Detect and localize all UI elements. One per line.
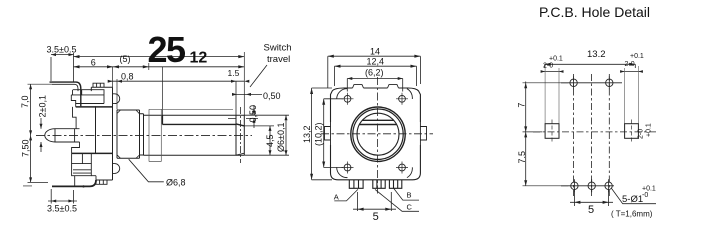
svg-text:12,4: 12,4 [367, 57, 385, 67]
center lines [377, 77, 379, 196]
rivet bump top [113, 94, 120, 104]
side tab left [325, 122, 331, 145]
dim 5 (terminals) [353, 192, 396, 211]
slot width mini-dims [541, 70, 643, 73]
svg-text:( T=1,6mm): ( T=1,6mm) [611, 210, 653, 219]
extension line shaft end [243, 52, 245, 115]
side tab right [420, 122, 426, 145]
dim 1.5 shaft tip [231, 80, 249, 116]
body: right block [91, 87, 112, 180]
svg-text:Ø6±0,1: Ø6±0,1 [276, 123, 286, 152]
svg-text:7: 7 [516, 103, 526, 108]
dim chain 6 / (5) [74, 63, 245, 124]
ears top [353, 85, 399, 88]
svg-text:13,2: 13,2 [302, 125, 312, 143]
svg-text:12: 12 [190, 49, 208, 66]
terminals bottom [349, 180, 402, 189]
svg-text:B: B [407, 190, 412, 199]
seal band [140, 114, 144, 155]
top ear bump [93, 83, 104, 87]
0,50 leader horizontal [232, 93, 262, 96]
svg-text:2-0: 2-0 [543, 63, 553, 70]
square slot left [545, 124, 559, 139]
svg-text:7,50: 7,50 [21, 139, 31, 157]
svg-text:(6,2): (6,2) [365, 68, 384, 78]
svg-text:0,8: 0,8 [121, 72, 134, 82]
svg-text:1.5: 1.5 [228, 68, 240, 78]
svg-text:(10,2): (10,2) [314, 122, 324, 146]
svg-text:5: 5 [373, 211, 379, 223]
svg-text:P.C.B. Hole Detail: P.C.B. Hole Detail [539, 4, 650, 20]
corner flange arcs [337, 89, 413, 178]
body outline [331, 88, 421, 180]
body: upper terminal strips [71, 90, 104, 104]
0,50 vertical dim at tip [228, 105, 258, 128]
square slot right [625, 124, 639, 139]
phantom washer on shaft [149, 109, 233, 161]
shaft flat band [362, 119, 393, 121]
dim (10,2) vertical [322, 99, 343, 168]
bushing [117, 110, 140, 158]
switch travel leader [250, 65, 267, 87]
dim 7,0 / 7,50 vertical [28, 84, 53, 182]
rivet bump bottom [113, 164, 120, 174]
svg-text:3.5±0.5: 3.5±0.5 [47, 204, 77, 214]
svg-text:2-0: 2-0 [625, 61, 635, 68]
svg-text:A: A [334, 193, 339, 202]
svg-text:(5): (5) [120, 54, 131, 64]
corner mounting holes [342, 93, 409, 174]
svg-text:C: C [407, 203, 413, 212]
dim 3.5±0.5 top [51, 53, 244, 82]
dim (6,2) [347, 77, 402, 92]
shaft tip bottom chamfer [236, 153, 244, 155]
svg-text:+0.1: +0.1 [549, 56, 563, 63]
svg-text:2±0,1: 2±0,1 [37, 95, 47, 117]
svg-text:4,5: 4,5 [265, 134, 275, 147]
svg-text:25: 25 [148, 29, 187, 70]
staircase to middle lug [73, 107, 77, 129]
dim 7 / 7.5 vertical [523, 82, 569, 186]
center line shaft end vertical [240, 107, 242, 163]
dim 25 line arrows [74, 55, 245, 58]
horizontal center dash line [533, 131, 657, 133]
svg-text:+0.1: +0.1 [630, 53, 644, 60]
lower shelf line [72, 152, 113, 154]
svg-text:6: 6 [91, 57, 96, 67]
dim 3.5±0.5 bottom [48, 189, 77, 204]
svg-text:7.5: 7.5 [517, 151, 527, 164]
svg-text:13.2: 13.2 [587, 49, 606, 60]
svg-text:travel: travel [267, 54, 290, 65]
middle lug rounded [45, 129, 80, 142]
dim 2±0,1 vertical [40, 118, 43, 152]
bottom ear bump [96, 180, 107, 184]
svg-text:0,50: 0,50 [248, 105, 258, 123]
dim 0,8 [108, 79, 245, 110]
shelf line [76, 106, 113, 108]
dim 13.2 [545, 63, 636, 68]
shaft [144, 115, 245, 155]
dim 12,4 [335, 65, 417, 86]
svg-text:2-0: 2-0 [638, 129, 645, 139]
dim Ø6±0,1 [244, 115, 289, 155]
top holes [561, 76, 622, 89]
svg-text:Ø6,8: Ø6,8 [166, 177, 186, 187]
dim 5 bottom [570, 190, 613, 206]
dim 4,5 [244, 126, 274, 155]
svg-text:-0: -0 [642, 192, 648, 199]
slot extension lines [545, 66, 638, 124]
central circles [351, 107, 405, 161]
dim 14 [328, 55, 421, 88]
Ø6,8 leader [129, 159, 164, 182]
shaft flat (D-cut) [162, 115, 244, 126]
5-Ø1 leader [612, 189, 656, 204]
slot center marks [552, 120, 632, 144]
center line horizontal [36, 134, 252, 136]
dim 13,2 vertical [310, 88, 332, 180]
vertical center dash lines [574, 74, 610, 196]
svg-text:7,0: 7,0 [20, 95, 30, 108]
body: top bent lug [50, 82, 81, 106]
staircase below lug [72, 142, 80, 153]
svg-text:+0.1: +0.1 [646, 123, 653, 137]
svg-text:Switch: Switch [264, 43, 292, 54]
terminal leaders A B C [334, 189, 358, 201]
bottom holes [561, 179, 614, 192]
svg-text:14: 14 [370, 47, 380, 57]
lower terminal strips [72, 153, 92, 163]
svg-text:5: 5 [588, 204, 594, 216]
mounting leg [52, 180, 96, 186]
svg-text:0,50: 0,50 [263, 91, 281, 101]
svg-text:5-Ø1: 5-Ø1 [622, 194, 643, 205]
svg-text:3.5±0.5: 3.5±0.5 [47, 45, 77, 55]
